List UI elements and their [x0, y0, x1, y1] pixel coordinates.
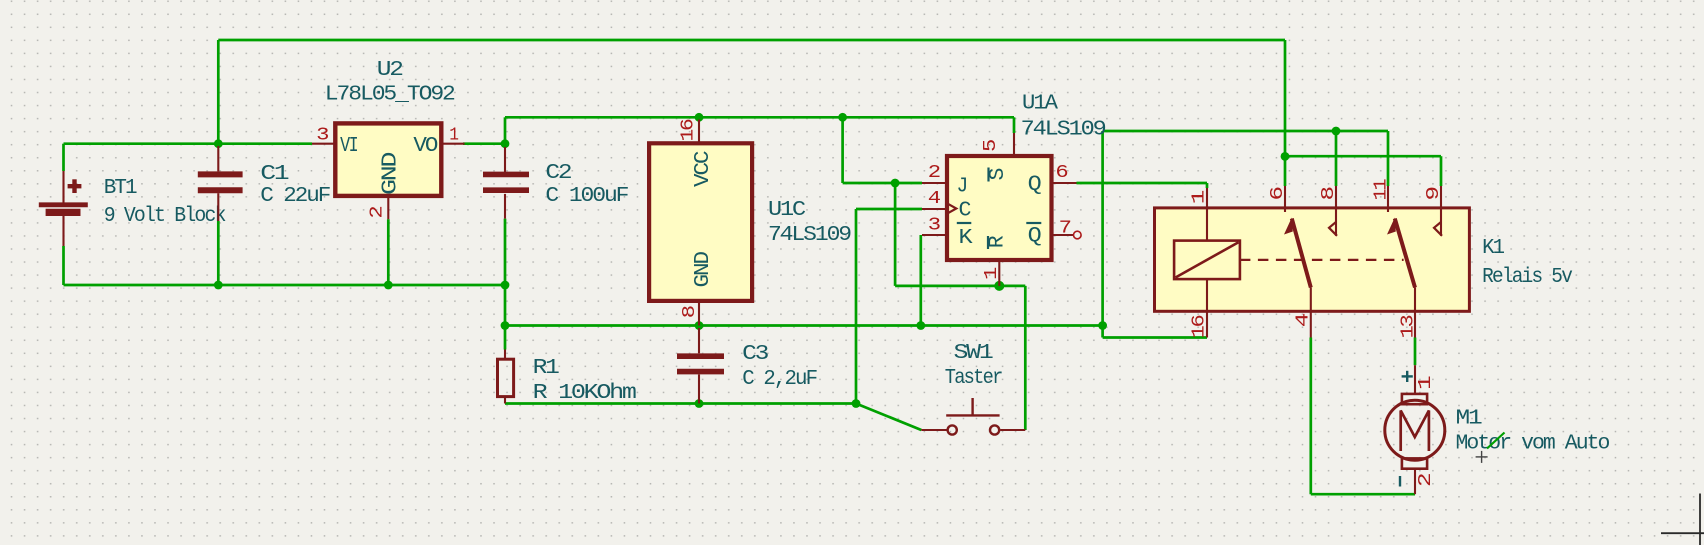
junction bus U1C GND/C3 [695, 321, 704, 330]
wire drop to relay pin8 [1335, 131, 1338, 186]
junction node-X C3 [695, 399, 704, 408]
junction R pin [994, 281, 1004, 291]
wire 9V from battery to U2 VI [64, 142, 313, 145]
pin name minus of M1 [1399, 476, 1401, 487]
pin 1 of K1 coil+ [1206, 188, 1208, 241]
svg-text:2: 2 [1416, 474, 1436, 487]
wire top rail left drop [217, 40, 220, 144]
pin 3 of U1A K [922, 234, 947, 236]
relay K1 coil [1174, 241, 1240, 280]
pin 1 of U2 VO [441, 143, 464, 145]
wire relay pin13 to motor plus [1414, 338, 1417, 366]
svg-text:1: 1 [1416, 376, 1436, 389]
junction VO/C2 node [501, 139, 510, 148]
wire J to R drop [894, 183, 897, 286]
svg-text:3: 3 [928, 216, 940, 236]
wire GND bus horizontal [505, 324, 1103, 327]
svg-text:GND: GND [380, 152, 403, 195]
svg-text:74LS109: 74LS109 [1021, 119, 1106, 142]
wire 5V drop to J pin [841, 117, 844, 183]
svg-text:1: 1 [982, 268, 1002, 280]
battery BT1 [39, 171, 88, 246]
junction 5V to J [838, 113, 847, 122]
wire Q corner at relay pin1 [1206, 183, 1209, 188]
wire 9V top rail [218, 39, 1285, 42]
wire rail to relay pin9 [1285, 155, 1441, 158]
pin 9 of K1 NO2 [1440, 186, 1442, 236]
svg-text:4: 4 [1293, 314, 1313, 327]
wire drop to relay pin9 [1440, 156, 1443, 186]
junction relay pin6 rail [1281, 152, 1290, 161]
svg-text:8: 8 [1319, 187, 1339, 200]
svg-text:K1: K1 [1482, 237, 1504, 260]
capacitor C3 [677, 328, 724, 404]
flip-flop U1A body [947, 156, 1052, 260]
svg-text:C2: C2 [545, 162, 572, 185]
pin name plus of M1 [1402, 375, 1413, 377]
svg-text:Motor vom Auto: Motor vom Auto [1456, 432, 1610, 455]
wire node-X horizontal R1 C3 SW1 [505, 402, 856, 405]
IC U1C body [649, 143, 752, 301]
svg-text:R 10KOhm: R 10KOhm [533, 382, 637, 405]
wire drop to relay pin11 [1387, 131, 1390, 186]
svg-text:2: 2 [368, 206, 388, 218]
regulator U2 body [335, 123, 441, 195]
pin 3 of U2 VI [312, 143, 335, 145]
svg-text:J: J [957, 176, 967, 199]
relay contact arm 2 [1395, 219, 1415, 288]
pin 8 of K1 NO1 [1335, 186, 1337, 236]
svg-text:S: S [987, 168, 1010, 180]
wire U2 VO to C2 node [463, 142, 505, 145]
svg-text:U2: U2 [377, 59, 404, 82]
pin 16 of U1C VCC [698, 120, 700, 144]
wire top rail right drop to relay pin6 [1284, 40, 1287, 186]
pin 5 of U1A S [1013, 133, 1015, 156]
svg-text:4: 4 [928, 189, 940, 209]
svg-text:16: 16 [679, 119, 699, 141]
pin 2 of U2 GND [387, 196, 389, 219]
wire battery positive corner [62, 144, 65, 171]
junction bus K pin [916, 321, 925, 330]
svg-text:SW1: SW1 [954, 342, 994, 365]
pin 4 of U1A C clock [922, 208, 947, 210]
svg-text:C3: C3 [742, 343, 769, 366]
svg-text:U1C: U1C [768, 199, 805, 222]
no-contact marker pin8 [1329, 222, 1337, 236]
relay contact arm 1 [1292, 219, 1311, 288]
pin 13 of K1 contact2 [1414, 288, 1416, 338]
pin 8 of U1C GND [698, 301, 700, 326]
svg-text:Q: Q [1028, 225, 1041, 248]
svg-text:VO: VO [413, 135, 437, 158]
svg-text:BT1: BT1 [104, 177, 137, 200]
svg-text:Relais 5v: Relais 5v [1482, 266, 1572, 289]
svg-text:Taster: Taster [945, 367, 1002, 390]
svg-text:U1A: U1A [1022, 93, 1058, 116]
junction U2 GND bottom [384, 281, 393, 290]
pin 6 of U1A Q [1051, 182, 1077, 184]
wire bus to R1 top [504, 326, 507, 350]
relay K1 body [1155, 208, 1470, 311]
svg-text:VI: VI [340, 135, 357, 158]
svg-text:11: 11 [1371, 179, 1391, 200]
svg-text:C 100uF: C 100uF [545, 185, 628, 208]
junction U1C VCC [695, 113, 704, 122]
svg-text:L78L05_TO92: L78L05_TO92 [325, 84, 455, 107]
pin 6 of K1 common1 [1284, 186, 1286, 212]
wire coil return to relay pin16 [1103, 336, 1207, 339]
wire 5V rail drop to U1A pin5 [1013, 117, 1016, 133]
junction J wire [891, 179, 900, 188]
wire Q output to relay pin1 [1077, 182, 1208, 185]
relay K1 dashed link [1240, 259, 1404, 261]
sheet frame corner [1661, 532, 1704, 534]
svg-text:M1: M1 [1456, 408, 1483, 431]
svg-text:Q: Q [1028, 174, 1041, 197]
wire R-net drop to switch right [1024, 286, 1027, 430]
wire contact rail y131 [1103, 130, 1388, 133]
resistor R1 [498, 350, 514, 404]
pin 11 of K1 common2 [1387, 186, 1389, 212]
wire relay pin4 to motor minus [1309, 338, 1312, 495]
svg-text:C: C [959, 200, 971, 223]
wire R-net horizontal [895, 285, 1025, 288]
svg-text:9 Volt Block: 9 Volt Block [104, 205, 226, 228]
svg-text:1: 1 [1190, 191, 1210, 204]
pin 4 of K1 contact1 [1310, 288, 1312, 338]
wire ground rail bottom-left [64, 284, 506, 287]
svg-text:16: 16 [1190, 315, 1210, 338]
junction ground rail at C2 [501, 281, 510, 290]
motor M1 [1385, 365, 1445, 494]
junction relay pin8 drop [1332, 127, 1341, 136]
junction C1 bottom [214, 281, 223, 290]
switch SW1 [921, 398, 1025, 435]
junction bus coil return [1098, 321, 1107, 330]
svg-text:74LS109: 74LS109 [768, 224, 851, 247]
wire scrap over Motor text [1487, 433, 1505, 449]
wire to U1A pin2 J [843, 182, 922, 185]
pin 16 of K1 coil- [1206, 279, 1208, 337]
svg-text:C 2,2uF: C 2,2uF [742, 368, 817, 391]
wire clock net vertical [855, 209, 858, 404]
junction battery/C1 top [214, 139, 223, 148]
capacitor C2 [483, 147, 529, 219]
svg-text:6: 6 [1268, 187, 1288, 200]
pin 1 of U1A R [998, 260, 1000, 286]
cursor crosshair mark [1476, 456, 1488, 458]
wire K pin drop to GND bus [919, 235, 922, 326]
wire ground rail vertical to bus [504, 285, 507, 326]
wire 5V rail riser at C2 [504, 117, 507, 143]
svg-text:8: 8 [680, 306, 700, 318]
svg-text:C 22uF: C 22uF [260, 185, 330, 208]
wire diagonal to switch lever [856, 404, 921, 431]
svg-text:GND: GND [692, 252, 715, 288]
junction bus left [501, 321, 510, 330]
capacitor C1 [198, 146, 243, 285]
svg-text:7: 7 [1059, 219, 1071, 239]
svg-text:C1: C1 [260, 163, 289, 186]
wire battery negative to ground rail [62, 246, 65, 285]
wire C2 bottom to ground rail [504, 219, 507, 285]
pin 7 of U1A Qbar output [1051, 234, 1073, 236]
svg-text:VCC: VCC [692, 151, 715, 187]
svg-text:2: 2 [928, 163, 940, 183]
junction node-X switch [852, 399, 861, 408]
wire coil return vertical [1101, 131, 1104, 338]
svg-text:6: 6 [1055, 163, 1067, 183]
pin 2 of U1A J [922, 182, 947, 184]
svg-text:9: 9 [1424, 187, 1444, 200]
svg-text:5: 5 [981, 140, 1001, 152]
wire 5V rail horizontal [505, 116, 1014, 119]
svg-text:13: 13 [1398, 315, 1418, 338]
wire clock net to U1A pin4 [856, 208, 922, 211]
svg-text:1: 1 [449, 125, 458, 145]
svg-text:3: 3 [316, 125, 328, 145]
svg-text:R1: R1 [533, 357, 560, 380]
no-contact marker pin9 [1434, 222, 1442, 236]
